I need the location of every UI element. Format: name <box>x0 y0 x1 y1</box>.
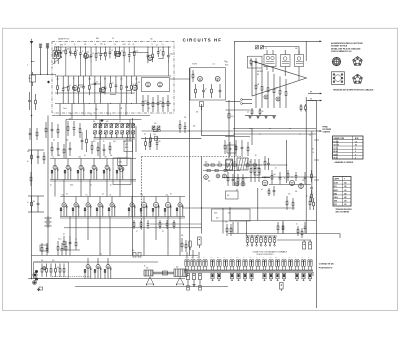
left G tube <box>204 175 209 180</box>
tube socket diagram S2 (5-pin) <box>353 57 363 66</box>
RF bus y93 <box>55 92 135 94</box>
wire link (RF row1) <box>134 51 148 53</box>
tube V16 <box>216 174 220 178</box>
capacitor (RF row1) <box>100 47 102 49</box>
resistor under-bank1 <box>91 141 93 146</box>
resistor A-r6 <box>167 95 169 102</box>
svg-text:V: V <box>344 179 345 181</box>
capacitor left7 <box>37 196 39 203</box>
svg-text:500: 500 <box>52 260 55 262</box>
resistor det0 <box>255 66 257 85</box>
switch contact M4-0 <box>211 273 214 279</box>
capacitor (RF row2) <box>83 76 85 82</box>
svg-text:220: 220 <box>312 149 315 151</box>
svg-text:60: 60 <box>104 44 106 46</box>
svg-text:0,05: 0,05 <box>88 79 91 81</box>
switch contact M2-13 <box>295 260 297 267</box>
switch contact M2-2 <box>223 260 225 267</box>
resistor G right-up1 <box>264 156 266 161</box>
series wire y165 <box>203 164 262 166</box>
svg-text:HF1: HF1 <box>96 38 99 40</box>
RF bus mid <box>55 75 171 77</box>
ground K1 <box>38 288 40 289</box>
resistor K-up1 <box>41 243 43 247</box>
vertical wire x283 <box>282 221 284 234</box>
tube V6c <box>158 82 163 87</box>
svg-text:10k: 10k <box>29 78 32 80</box>
svg-text:40: 40 <box>148 108 150 110</box>
resistor under I2 b <box>140 220 142 223</box>
resistor right of box1 <box>297 226 299 229</box>
terminal blob 3 <box>35 278 38 281</box>
svg-text:20: 20 <box>162 231 164 233</box>
padding trimmer bottom2 <box>105 131 108 134</box>
wire link (RF row1) <box>158 57 163 59</box>
contact bus lower <box>184 271 313 273</box>
resistor G9 <box>247 142 249 147</box>
svg-text:150: 150 <box>62 195 65 197</box>
resistor det5 <box>285 79 287 92</box>
wire link (RF row2) <box>95 83 101 85</box>
dashed wire y156 <box>142 156 244 158</box>
resistor preN2 <box>230 224 232 228</box>
row I baseline <box>60 216 185 218</box>
vertical wire x252up <box>251 129 253 146</box>
series resistor b1 <box>205 164 208 166</box>
tube V18 <box>235 182 239 186</box>
capacitor G8 <box>241 140 243 147</box>
small part under K <box>39 287 43 290</box>
tube V6 <box>132 85 137 90</box>
capacitor A-r2 <box>147 95 149 103</box>
bus wire y131 to earth <box>142 130 317 132</box>
terminal A <box>241 99 243 101</box>
terminal blob 2 <box>34 274 37 277</box>
wire link (RF row1) <box>129 52 134 54</box>
tube stage I2-1 <box>143 197 145 203</box>
svg-text:47k: 47k <box>184 117 187 119</box>
capacitor col-left2 <box>51 122 53 129</box>
tube V13 <box>299 184 304 189</box>
svg-text:300: 300 <box>66 140 69 142</box>
capacitor under-bank3 <box>103 144 105 149</box>
capacitor (RF row2) <box>73 76 75 80</box>
resistor pre-bank1 <box>67 121 69 127</box>
tube stage I3 <box>99 197 101 203</box>
bus wire y115 <box>52 115 150 117</box>
resistor mid1 <box>63 236 65 241</box>
tube V10 <box>276 97 280 101</box>
resistor (RF row2) <box>57 76 59 81</box>
resistor K1 <box>46 264 48 269</box>
junction diamond 1 <box>47 81 50 84</box>
resistor preM2 <box>185 240 187 244</box>
svg-text:150: 150 <box>150 39 153 41</box>
capacitor (RF row2) <box>94 76 96 79</box>
trimmer bank bottom bus <box>94 137 136 139</box>
box wire x230 <box>229 208 231 221</box>
terminal B <box>241 103 243 105</box>
series resistor c1 <box>207 169 210 171</box>
ground det2 <box>265 116 267 117</box>
wire link (RF row1) <box>101 52 106 54</box>
wire left stub2 <box>28 195 44 197</box>
switch contact M1-3 <box>203 260 205 267</box>
svg-text:ECH3: ECH3 <box>193 64 197 66</box>
resistor under-bank2 <box>97 142 99 147</box>
switch contact M1-2 <box>197 260 199 267</box>
tube socket diagram S3 (square base) <box>332 72 345 85</box>
junction dot y134 <box>259 133 260 134</box>
switch contact M2-15 <box>308 260 310 267</box>
tube stage L0 <box>87 258 89 265</box>
IF transformer T2 <box>281 55 291 67</box>
svg-text:500: 500 <box>27 151 29 153</box>
box G (hatched) <box>237 158 248 170</box>
svg-text:40: 40 <box>170 194 172 196</box>
capacitor C ant <box>29 92 31 100</box>
tube V12 <box>289 180 294 185</box>
capacitor (RF row2) <box>104 76 106 81</box>
hanging can N1 <box>303 242 306 249</box>
tube stage H2 <box>80 159 82 166</box>
resistor K0 <box>41 264 43 269</box>
svg-text:10k: 10k <box>295 191 298 193</box>
antenna tap component <box>39 44 42 47</box>
tick right 2 <box>314 159 319 161</box>
svg-text:60: 60 <box>110 195 112 197</box>
resistor (RF row1) <box>133 46 135 48</box>
tube stage I2-2 <box>155 197 157 203</box>
vertical wire x201 upper <box>201 104 203 136</box>
relay box F2 <box>118 158 128 166</box>
svg-text:0,2: 0,2 <box>66 194 68 196</box>
svg-text:0,2: 0,2 <box>144 134 146 136</box>
vertical wire x234 (detector box left edge) <box>233 41 235 186</box>
switch contact N0 <box>247 236 249 238</box>
inner screen box <box>142 78 170 92</box>
svg-text:OSC: OSC <box>125 144 128 146</box>
wire G2 <box>222 177 270 179</box>
wire y184 center <box>269 184 311 186</box>
vertical wire x144c <box>143 217 145 256</box>
hanging can <box>280 283 284 290</box>
RF bus top <box>55 46 171 48</box>
resistor J4 <box>277 222 279 226</box>
resistor right2 <box>311 190 313 194</box>
svg-text:25: 25 <box>252 167 254 169</box>
capacitor (RF row2) <box>126 76 128 82</box>
resistor (RF row2) <box>78 76 80 83</box>
svg-text:300: 300 <box>250 257 252 259</box>
vertical wire x90b <box>89 180 91 197</box>
contact bus end hook <box>312 272 314 276</box>
svg-text:0,05: 0,05 <box>113 141 116 143</box>
tube stage I2-4 <box>179 197 181 203</box>
svg-text:5000: 5000 <box>170 53 173 55</box>
svg-text:470: 470 <box>146 268 149 270</box>
svg-text:0,5: 0,5 <box>114 44 116 46</box>
resistor left3 <box>36 128 38 132</box>
svg-text:500: 500 <box>159 101 162 103</box>
component on x229 <box>228 114 230 119</box>
capacitor F-left2 <box>81 132 83 140</box>
padding trimmer top6 <box>126 124 129 127</box>
capacitor (RF row1) <box>147 47 149 49</box>
svg-text:PO 285: PO 285 <box>334 141 339 143</box>
capacitor G5 <box>279 172 281 178</box>
series resistor b3 <box>218 164 221 166</box>
resistor (RF row1) <box>65 46 67 48</box>
svg-text:50: 50 <box>112 82 114 84</box>
svg-text:300: 300 <box>344 201 347 203</box>
module box K <box>34 262 68 279</box>
inline part on y131 <box>154 129 158 132</box>
switch contact M2-12 <box>288 260 290 267</box>
svg-text:0,1: 0,1 <box>162 44 164 46</box>
bus wire y255 <box>32 255 199 257</box>
switch contact N5 <box>269 236 271 238</box>
box mid-bottom <box>212 209 251 221</box>
svg-text:0,5: 0,5 <box>128 44 130 46</box>
switch contact N4 <box>265 236 267 238</box>
svg-text:500: 500 <box>289 257 291 259</box>
tube stage I2 <box>87 197 89 203</box>
row H bus <box>50 158 136 160</box>
svg-text:300: 300 <box>67 49 70 51</box>
svg-text:CBL6: CBL6 <box>334 197 338 199</box>
resistor J2 <box>309 196 311 201</box>
capacitor (RF row2) <box>62 76 64 82</box>
svg-text:BF: BF <box>257 74 259 76</box>
switch contact M4-3 <box>237 273 240 279</box>
svg-text:150: 150 <box>288 194 291 196</box>
svg-text:POSITION PO: POSITION PO <box>319 267 333 269</box>
capacitor left2 <box>29 128 31 133</box>
resistor (RF row1) <box>152 47 154 50</box>
capacitor (RF row1) <box>128 47 130 48</box>
padding trimmer bottom1 <box>99 131 102 134</box>
row H baseline <box>50 179 136 181</box>
IF transformer T1 <box>264 55 276 67</box>
capacitor K-up2 <box>46 243 48 249</box>
wire y208 <box>183 207 295 209</box>
shaft middle block <box>163 271 168 275</box>
resistor right1 <box>311 170 313 174</box>
terminal blob 1 <box>35 270 38 273</box>
resistor F-right4 <box>149 139 151 143</box>
svg-text:250: 250 <box>344 183 347 185</box>
wire left stub3 <box>28 211 44 213</box>
pre-detector box <box>247 56 262 68</box>
svg-text:CIRCUITS HF: CIRCUITS HF <box>183 38 222 43</box>
switch contact M2-10 <box>275 260 277 267</box>
svg-text:40: 40 <box>95 44 97 46</box>
resistor (RF row1) <box>95 47 97 50</box>
svg-text:40: 40 <box>50 185 52 187</box>
wire link (RF row1) <box>57 52 61 54</box>
svg-text:CHASSIS: CHASSIS <box>323 130 331 133</box>
resistor det3 <box>273 74 275 89</box>
switch contact M3-0 <box>187 273 190 279</box>
resistor K5 <box>63 264 65 269</box>
connector left <box>30 75 36 82</box>
svg-text:75: 75 <box>160 50 162 52</box>
resistor G1 <box>254 159 256 169</box>
padding trimmer top7 <box>132 124 135 127</box>
padding trimmer bottom0 <box>94 131 97 134</box>
vertical wire x223 <box>222 208 224 234</box>
wire T tops <box>262 46 299 48</box>
drop x60 <box>59 104 61 116</box>
resistor G12 <box>268 188 270 190</box>
resistor F-right3 <box>145 137 147 142</box>
tube stage H0 <box>54 159 56 166</box>
coil component x47 <box>46 44 49 49</box>
svg-text:250: 250 <box>57 79 59 81</box>
vertical wire x100 <box>99 120 101 159</box>
svg-text:310: 310 <box>344 204 347 206</box>
inline part F-right2 <box>155 136 158 140</box>
battery B1 <box>47 216 49 218</box>
antenna down-lead wire <box>31 44 33 279</box>
bus wire y134 <box>233 133 316 135</box>
resistor left mid2 <box>30 172 32 177</box>
svg-text:250: 250 <box>138 82 141 84</box>
switch contact M4-12 <box>308 273 311 279</box>
svg-text:2x0,1: 2x0,1 <box>63 108 67 110</box>
switch contact M4-9 <box>282 273 285 279</box>
trimmer F-right2 <box>157 126 160 129</box>
small box G14 <box>254 168 260 175</box>
svg-text:2: 2 <box>27 64 28 66</box>
svg-text:500: 500 <box>295 48 298 50</box>
wire G1 <box>248 164 287 166</box>
padding trimmer top1 <box>99 124 102 127</box>
output arrow 2 <box>308 100 321 102</box>
shaft legs left <box>147 277 151 284</box>
resistor under arrows 2 <box>305 104 307 106</box>
vertical wire x189 <box>188 68 190 256</box>
svg-text:300: 300 <box>208 181 210 183</box>
drop x246 <box>246 221 248 236</box>
svg-text:TENSIONS RELEVEES: TENSIONS RELEVEES <box>336 209 352 211</box>
capacitor (RF row1) <box>90 47 92 49</box>
svg-text:0,05: 0,05 <box>231 116 234 118</box>
vertical wire x306 down <box>305 97 307 234</box>
junction dot antenna <box>31 115 33 117</box>
svg-text:100: 100 <box>216 218 219 220</box>
resistor A-r1 <box>142 95 144 102</box>
svg-text:0,2: 0,2 <box>256 257 258 259</box>
vertical wire x81b <box>80 180 82 197</box>
svg-text:MOD: MOD <box>225 65 228 67</box>
switch contact M1-0 <box>185 260 187 267</box>
svg-text:ECH3: ECH3 <box>334 183 338 185</box>
tube V7 <box>198 76 203 81</box>
padding trimmer bottom4 <box>115 131 118 134</box>
resistor G4 <box>271 170 273 175</box>
output arrow 1 <box>308 93 321 95</box>
svg-text:500: 500 <box>33 201 36 203</box>
junction dots G <box>264 176 265 177</box>
series resistor b5 <box>233 164 236 166</box>
svg-text:0,5: 0,5 <box>86 195 88 197</box>
resistor (RF row2) <box>120 76 122 82</box>
svg-text:0,5: 0,5 <box>247 112 249 114</box>
dashed wire y276 <box>52 275 90 277</box>
svg-text:25: 25 <box>90 113 92 115</box>
switch contact M2-7 <box>256 260 258 267</box>
capacitor A-r4 <box>157 95 159 103</box>
wire F-right <box>141 137 202 139</box>
svg-text:0,05: 0,05 <box>269 257 272 259</box>
svg-text:500: 500 <box>218 162 220 164</box>
resistor K2 <box>50 264 52 269</box>
bus wire y286 <box>75 286 228 288</box>
detector triangle U1 <box>252 61 307 96</box>
wire link (RF row2) <box>79 84 84 86</box>
tube stage H5 <box>119 159 121 166</box>
bus wire y227 <box>64 227 202 229</box>
coupling coil <box>53 51 60 59</box>
vertical wire x168c <box>167 217 169 256</box>
wire link (RF row2) <box>111 93 116 95</box>
ground det1 <box>257 116 259 117</box>
capacitor beside x189 b <box>184 122 186 127</box>
stage box H <box>113 158 131 185</box>
tube V2 <box>115 51 120 56</box>
resistor K-up3 <box>57 241 59 246</box>
resistor preN1 <box>226 224 228 228</box>
bus wire y262 <box>34 261 158 263</box>
svg-text:500: 500 <box>176 267 179 269</box>
vertical wire x107b <box>106 180 108 197</box>
wire terminal left <box>226 101 241 103</box>
svg-text:0,5: 0,5 <box>309 134 311 136</box>
svg-text:0,05: 0,05 <box>135 50 138 52</box>
svg-text:500: 500 <box>193 126 196 128</box>
resistor J0 <box>286 196 288 201</box>
switch contact M4-7 <box>269 273 272 279</box>
wire osc right <box>226 109 251 111</box>
padding trimmer bottom6 <box>126 131 129 134</box>
svg-text:2x0,1: 2x0,1 <box>123 44 127 46</box>
bus wire y278 <box>28 278 185 280</box>
vertical wire x316 <box>316 101 318 309</box>
resistor det4 <box>279 76 281 90</box>
svg-text:0,5: 0,5 <box>100 254 102 256</box>
resistor (RF row1) <box>84 47 86 48</box>
padding trimmer top4 <box>115 124 118 127</box>
dashed wire x141 <box>141 157 143 231</box>
tube stage I2-0 <box>131 197 133 203</box>
svg-text:50: 50 <box>84 155 86 157</box>
vertical wire x47 <box>47 44 49 75</box>
connector below osc <box>200 102 204 107</box>
svg-text:5000: 5000 <box>70 185 73 187</box>
svg-text:OC 19: OC 19 <box>334 148 339 150</box>
capacitor pre-bank2 <box>73 121 75 128</box>
capacitor G11 <box>304 172 306 177</box>
svg-text:10k: 10k <box>93 121 96 123</box>
switch contact N1 <box>251 236 253 238</box>
series wire y170 <box>203 170 240 172</box>
detector box top edge <box>234 40 320 42</box>
resistor F-sub3 <box>63 144 65 149</box>
svg-text:100: 100 <box>273 174 276 176</box>
svg-text:HP: HP <box>310 91 312 93</box>
